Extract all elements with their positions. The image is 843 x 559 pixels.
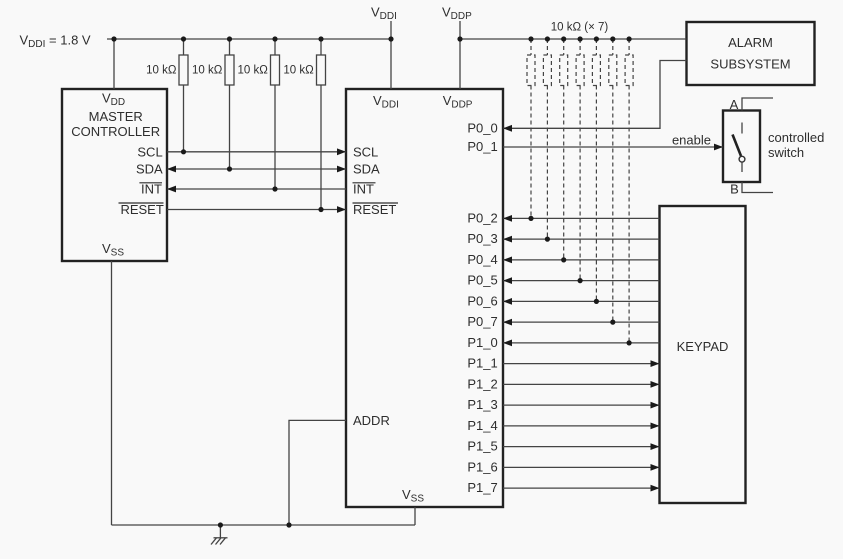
svg-text:10 kΩ: 10 kΩ: [237, 65, 268, 77]
svg-text:P1_7: P1_7: [467, 480, 497, 495]
svg-text:VDDI: VDDI: [373, 93, 399, 111]
svg-text:enable: enable: [672, 133, 711, 148]
svg-text:P0_4: P0_4: [467, 252, 497, 267]
svg-text:VDD: VDD: [102, 91, 125, 109]
svg-text:P0_6: P0_6: [467, 293, 497, 308]
svg-text:SDA: SDA: [136, 162, 163, 177]
svg-text:P0_0: P0_0: [467, 120, 497, 135]
svg-text:P1_4: P1_4: [467, 418, 497, 433]
svg-text:B: B: [730, 182, 739, 197]
svg-text:P1_1: P1_1: [467, 356, 497, 371]
svg-text:VSS: VSS: [402, 487, 424, 505]
svg-text:P1_0: P1_0: [467, 335, 497, 350]
svg-text:INT: INT: [141, 182, 162, 197]
svg-text:CONTROLLER: CONTROLLER: [71, 124, 160, 139]
svg-text:SCL: SCL: [353, 144, 378, 159]
svg-text:VDDP: VDDP: [442, 5, 472, 23]
svg-text:10 kΩ: 10 kΩ: [146, 65, 177, 77]
svg-text:controlled: controlled: [768, 130, 824, 145]
svg-text:P1_5: P1_5: [467, 439, 497, 454]
svg-text:P1_2: P1_2: [467, 376, 497, 391]
svg-text:10 kΩ: 10 kΩ: [192, 65, 223, 77]
svg-text:10 kΩ (× 7): 10 kΩ (× 7): [551, 22, 609, 34]
svg-text:SUBSYSTEM: SUBSYSTEM: [710, 57, 790, 72]
svg-text:VDDP: VDDP: [443, 93, 473, 111]
svg-text:VSS: VSS: [102, 241, 124, 259]
svg-text:RESET: RESET: [353, 202, 396, 217]
svg-text:RESET: RESET: [120, 202, 163, 217]
svg-text:KEYPAD: KEYPAD: [677, 339, 729, 354]
svg-text:P0_2: P0_2: [467, 210, 497, 225]
svg-text:10 kΩ: 10 kΩ: [283, 65, 314, 77]
svg-text:P0_5: P0_5: [467, 273, 497, 288]
svg-text:P0_3: P0_3: [467, 231, 497, 246]
svg-text:VDDI: VDDI: [371, 5, 397, 23]
svg-text:INT: INT: [353, 182, 374, 197]
svg-text:P1_6: P1_6: [467, 459, 497, 474]
svg-text:ADDR: ADDR: [353, 413, 390, 428]
svg-text:A: A: [730, 97, 739, 112]
svg-text:switch: switch: [768, 145, 804, 160]
svg-text:SDA: SDA: [353, 162, 380, 177]
svg-text:P0_1: P0_1: [467, 139, 497, 154]
svg-text:ALARM: ALARM: [728, 35, 773, 50]
svg-text:P0_7: P0_7: [467, 314, 497, 329]
svg-text:P1_3: P1_3: [467, 397, 497, 412]
svg-text:MASTER: MASTER: [89, 109, 143, 124]
svg-text:VDDI = 1.8 V: VDDI = 1.8 V: [20, 33, 91, 51]
svg-text:SCL: SCL: [137, 144, 162, 159]
